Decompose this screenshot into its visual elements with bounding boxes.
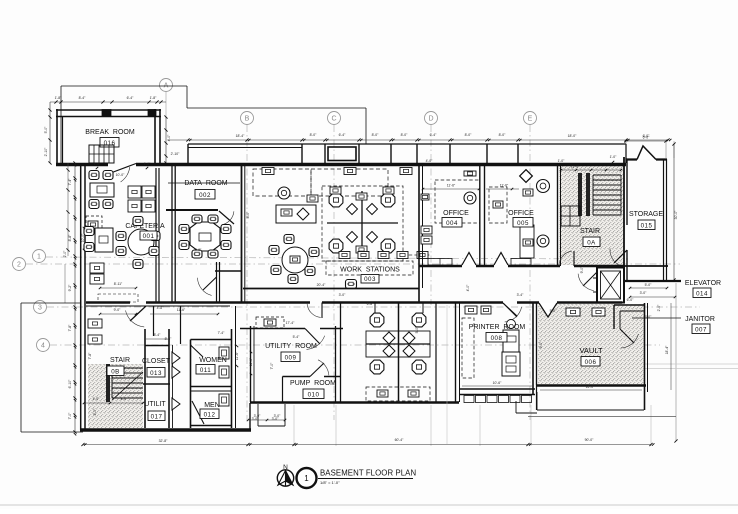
sheet edge line [0,504,738,506]
svg-text:5'-4": 5'-4" [293,335,301,339]
cafeteria table group 2 [84,227,94,236]
soffit boxes [262,168,274,175]
printer room dashed cabinet [462,318,474,378]
west inner dimension ticks [66,168,69,171]
svg-text:5'-0": 5'-0" [44,126,48,134]
break room door [108,164,136,175]
svg-text:8'-4": 8'-4" [165,337,173,341]
svg-text:7'-4": 7'-4" [218,331,226,335]
svg-text:11'-6": 11'-6" [500,184,509,188]
svg-text:001: 001 [143,233,155,240]
svg-text:8'-0": 8'-0" [121,397,129,401]
hall dimension 8-4 [146,338,169,340]
grid line B [246,125,248,420]
svg-text:10'-6": 10'-6" [493,381,502,385]
svg-text:4: 4 [41,343,45,350]
svg-text:002: 002 [199,192,211,199]
svg-text:7'-8": 7'-8" [68,324,72,332]
svg-text:1: 1 [304,474,309,483]
storage door [614,250,627,263]
svg-text:32'-8": 32'-8" [159,439,168,443]
stair 0A treads [593,174,621,176]
svg-text:WORK STATIONS: WORK STATIONS [340,267,400,274]
svg-text:DATA ROOM: DATA ROOM [184,180,227,187]
svg-text:0A: 0A [587,240,596,247]
svg-text:006: 006 [585,359,597,366]
svg-text:STAIR: STAIR [110,357,130,364]
svg-text:3'-4": 3'-4" [517,293,525,297]
svg-text:8'-0": 8'-0" [499,133,507,137]
utility door [321,303,323,319]
svg-text:2'-0": 2'-0" [657,304,661,312]
west dimension string [74,163,76,432]
cafeteria dashed box [86,216,102,231]
svg-text:5'-0": 5'-0" [645,283,653,287]
work area east wall [455,302,457,402]
svg-text:1'-0": 1'-0" [94,162,102,166]
elevator lobby door [583,272,597,286]
svg-text:3'-0": 3'-0" [272,417,280,421]
printer room south wall [459,388,535,390]
svg-text:9'-0": 9'-0" [580,266,584,274]
svg-text:PRINTER ROOM: PRINTER ROOM [469,324,526,331]
thermostat boxes [88,319,102,328]
svg-text:7'-0": 7'-0" [270,362,274,370]
printer room west wall [459,303,461,394]
svg-text:BREAK ROOM: BREAK ROOM [85,129,135,136]
svg-text:007: 007 [695,327,707,334]
stair 0B rail [106,364,110,402]
elevator leader [624,280,681,282]
stair 0A hatched floor [559,166,624,265]
svg-text:3'-0": 3'-0" [252,417,260,421]
north wall window band [188,143,626,145]
storage walls [626,159,628,225]
svg-text:18'-0": 18'-0" [568,134,577,138]
stair 0B break line [112,372,143,400]
vault slab below [537,409,644,411]
grid bubble C [328,112,341,125]
printer room east wall [532,303,534,394]
janitor leader [632,317,681,319]
bottom mini dims [248,419,285,421]
cafeteria fridges [90,263,104,273]
north arrow [277,470,293,486]
double door to closet [172,352,180,364]
svg-text:D: D [428,116,433,123]
extension lines light [293,405,295,446]
svg-text:UTILITY ROOM: UTILITY ROOM [265,343,317,350]
office 005 interior dim [486,188,519,190]
cafeteria vending machines [128,186,141,198]
main north wall [56,163,108,166]
cafeteria dims [100,287,136,289]
break room walls [56,109,161,111]
svg-text:10'-0": 10'-0" [81,233,85,242]
svg-text:013: 013 [150,370,162,377]
svg-text:18'-4": 18'-4" [665,345,669,354]
svg-text:0B: 0B [111,369,120,376]
svg-text:CLOSET: CLOSET [142,358,171,365]
pump room walls [283,376,311,378]
svg-text:10'-0": 10'-0" [116,173,125,177]
pods monitor row [403,254,430,256]
grid line 2 [26,263,680,265]
cafeteria round table [128,229,154,255]
grid bubble B [241,112,254,125]
svg-text:1'-8": 1'-8" [55,96,63,100]
break room counter [89,145,114,163]
svg-text:11'-6": 11'-6" [235,351,239,360]
conference room south wall [215,270,242,272]
alcove door [203,277,217,290]
svg-text:11'-6": 11'-6" [571,165,580,169]
svg-text:011: 011 [200,367,211,374]
storage entry chevron [626,158,667,160]
title circle 1 [297,468,317,488]
svg-text:8'-0": 8'-0" [465,133,473,137]
svg-text:8'-0": 8'-0" [246,211,250,219]
svg-text:B: B [245,116,250,123]
svg-text:005: 005 [517,220,529,227]
workstation pods [322,186,403,261]
grid line D [430,125,432,305]
svg-text:STAIR: STAIR [580,228,600,235]
break room window piers [102,110,111,117]
svg-text:4'-0": 4'-0" [93,397,101,401]
vault walls [536,303,538,385]
work stations label [326,261,413,275]
svg-text:3'-0": 3'-0" [640,291,648,295]
svg-text:OFFICE: OFFICE [443,210,469,217]
stair corridor door [573,251,575,266]
svg-text:4'-0": 4'-0" [426,159,434,163]
svg-text:PUMP ROOM: PUMP ROOM [290,380,336,387]
vault dim [540,389,642,391]
svg-text:017: 017 [151,414,163,421]
vault step [515,401,517,413]
svg-text:6'-4": 6'-4" [339,133,347,137]
svg-text:009: 009 [285,355,297,362]
vault vestibule doors [539,303,557,317]
svg-text:8'-0": 8'-0" [401,133,409,137]
grid bubble A [160,79,173,92]
svg-text:6'-8": 6'-8" [367,302,375,306]
women door [191,345,204,357]
men door [192,401,204,424]
svg-text:OFFICE: OFFICE [508,210,534,217]
svg-text:N: N [283,464,288,471]
right lower line [528,416,676,418]
svg-text:6'-0": 6'-0" [627,298,635,302]
data room door [219,211,234,224]
utility ceiling box [256,317,284,328]
grid line E [529,125,531,420]
svg-text:4'-0": 4'-0" [195,248,203,252]
elevator shaft [597,268,624,303]
grid line 1 [46,257,628,259]
printer door [503,303,517,316]
svg-text:7'-0": 7'-0" [68,412,72,420]
top dimension string [168,139,668,141]
svg-text:STORAGE: STORAGE [629,211,663,218]
svg-text:6'-0": 6'-0" [645,315,653,319]
right dimension string [670,303,672,390]
office 005 door [494,253,508,266]
pods bay east wall [435,303,437,402]
svg-text:015: 015 [641,223,653,230]
svg-text:2'-0": 2'-0" [63,250,67,258]
grid bubble E [524,112,537,125]
grid bubble 4 [37,339,50,352]
storage dim right [673,144,675,280]
svg-text:6'-10": 6'-10" [68,379,72,388]
svg-text:90'-0": 90'-0" [585,438,594,442]
stair 0B hatched floor [88,364,143,428]
hall dimension 9-0 [100,313,136,315]
conference chairs [179,225,189,234]
svg-text:E: E [528,116,533,123]
printer machines [503,330,519,352]
office 004 cabinets [428,259,452,266]
svg-text:11'-6": 11'-6" [177,308,186,312]
south wall bump [257,404,259,426]
svg-text:8'-4": 8'-4" [79,96,87,100]
utility door [305,329,320,345]
stair 0B treads [112,367,143,369]
stair 0A rails [578,173,582,216]
office 004/005 wall [479,166,481,266]
svg-text:8'-8": 8'-8" [68,234,72,242]
break room dimension string top [50,101,166,103]
storage top dim [626,140,666,142]
svg-text:1'-0": 1'-0" [558,159,566,163]
alcove wall [216,262,218,302]
grid bubble 2 [13,258,26,271]
svg-text:2'-10": 2'-10" [171,152,180,156]
svg-text:VAULT: VAULT [579,346,602,355]
svg-text:17'-4": 17'-4" [286,321,295,325]
svg-text:1'-8": 1'-8" [150,96,158,100]
elevator dims [630,287,667,289]
svg-text:11'-6": 11'-6" [249,357,253,366]
svg-text:WOMEN: WOMEN [199,357,227,364]
svg-text:004: 004 [446,220,458,227]
site outline lower-left [20,303,22,432]
office 004 door [462,253,476,266]
svg-text:9'-2": 9'-2" [68,284,72,292]
svg-text:60'-4": 60'-4" [395,438,404,442]
grid bubble 3 [34,301,47,314]
svg-text:30'-0": 30'-0" [674,210,678,219]
svg-text:6'-4": 6'-4" [127,96,135,100]
svg-text:3'-0": 3'-0" [339,293,347,297]
corridor south wall [86,301,130,304]
roof outline top-left [61,85,187,87]
svg-text:5'-0": 5'-0" [415,326,419,334]
grid line 4 [50,344,660,346]
stair dim [561,169,621,171]
conference table [190,222,220,251]
svg-text:2: 2 [17,262,21,269]
svg-text:6'-0": 6'-0" [643,136,651,140]
fire door recess [328,147,356,161]
break room dimension string left [49,102,51,163]
stair 0A landing closet [561,206,580,226]
svg-text:7'-8": 7'-8" [88,352,92,360]
office 005 cabinets [511,259,531,266]
grid 2 jog line [64,264,66,303]
janitor walls [614,304,645,306]
pump door [310,363,324,377]
office 005 dashed layout [489,187,507,223]
cafeteria table group 1 [89,171,99,180]
corridor north wall [419,265,462,267]
svg-text:6'-4": 6'-4" [430,133,438,137]
svg-text:4'-8": 4'-8" [157,306,165,310]
svg-text:008: 008 [491,335,503,342]
hallway door [130,306,146,321]
hall dimension 11-6 [150,313,218,315]
svg-text:003: 003 [364,276,376,283]
manager desk group [278,187,290,199]
svg-text:JANITOR: JANITOR [685,316,715,323]
storage south wall [624,265,668,267]
svg-text:9'-0": 9'-0" [539,341,543,349]
svg-text:8'-4": 8'-4" [154,333,162,337]
grid bubble 1 [33,250,46,263]
bottom dimension string [83,444,651,446]
svg-text:012: 012 [204,412,216,419]
svg-text:20'-4": 20'-4" [317,283,326,287]
work stations chair [346,280,357,289]
svg-text:11'-6": 11'-6" [447,184,456,188]
hall west wall segment [153,306,155,336]
utility west wall [250,326,252,402]
vault top boxes [566,308,580,316]
printer top boxes [465,306,477,314]
grid bubble D [425,112,438,125]
svg-text:8'-0": 8'-0" [93,408,97,416]
janitor door [620,329,634,343]
lower pods [398,303,400,401]
svg-text:1: 1 [37,254,41,261]
svg-text:8'-0": 8'-0" [310,133,318,137]
data room walls [166,209,218,211]
svg-text:18'-4": 18'-4" [236,134,245,138]
office 004 furniture [464,192,476,204]
stair east wall [623,157,625,266]
svg-text:1'-0": 1'-0" [610,155,618,159]
west exterior wall [80,163,82,430]
printer dim [462,385,532,387]
open office east wall [418,166,420,303]
cafeteria number box [140,231,157,240]
office round table [282,247,308,273]
svg-text:BASEMENT FLOOR PLAN: BASEMENT FLOOR PLAN [320,469,416,478]
printer cabinets row [464,396,474,403]
svg-text:1/8" = 1'-0": 1/8" = 1'-0" [320,480,340,485]
svg-text:7'-4": 7'-4" [68,178,72,186]
open office south wall [243,288,419,290]
grid line 3 [47,306,700,308]
svg-text:5'-0": 5'-0" [550,309,558,313]
printer door [503,303,517,317]
women fixtures [219,347,229,359]
office 005 east wall [557,166,559,266]
svg-text:4'-0": 4'-0" [466,284,470,292]
grid line C [333,125,335,420]
data room leader line [168,182,240,184]
dimension string right of break room [165,117,167,163]
svg-text:16'-0": 16'-0" [586,385,595,389]
lower pods dashed cabinets [366,387,430,401]
svg-text:1'-0": 1'-0" [144,162,152,166]
office 004 interior dim [423,188,479,190]
utility east wall [335,326,337,402]
open office ceiling soffits dashed [253,169,311,196]
utility north wall [240,328,305,330]
svg-text:3: 3 [38,305,42,312]
svg-text:MEN: MEN [204,402,220,409]
svg-text:014: 014 [696,291,708,298]
svg-text:010: 010 [308,392,320,399]
svg-text:8'-0": 8'-0" [372,133,380,137]
vault hatched floor [538,304,644,385]
cafeteria chase walls [155,168,157,302]
closet walls [144,329,146,428]
svg-text:2'-10": 2'-10" [44,147,48,156]
svg-text:C: C [331,116,336,123]
office 005 furniture [520,170,533,183]
south wall lower-left block [80,428,251,431]
svg-text:9'-0": 9'-0" [114,308,122,312]
svg-text:ELEVATOR: ELEVATOR [685,280,721,287]
office 004 dashed layout [435,180,480,223]
women room walls [191,339,233,341]
svg-text:8'-11": 8'-11" [114,282,123,286]
svg-text:UTILIT: UTILIT [144,401,166,408]
south wall step [249,403,251,430]
